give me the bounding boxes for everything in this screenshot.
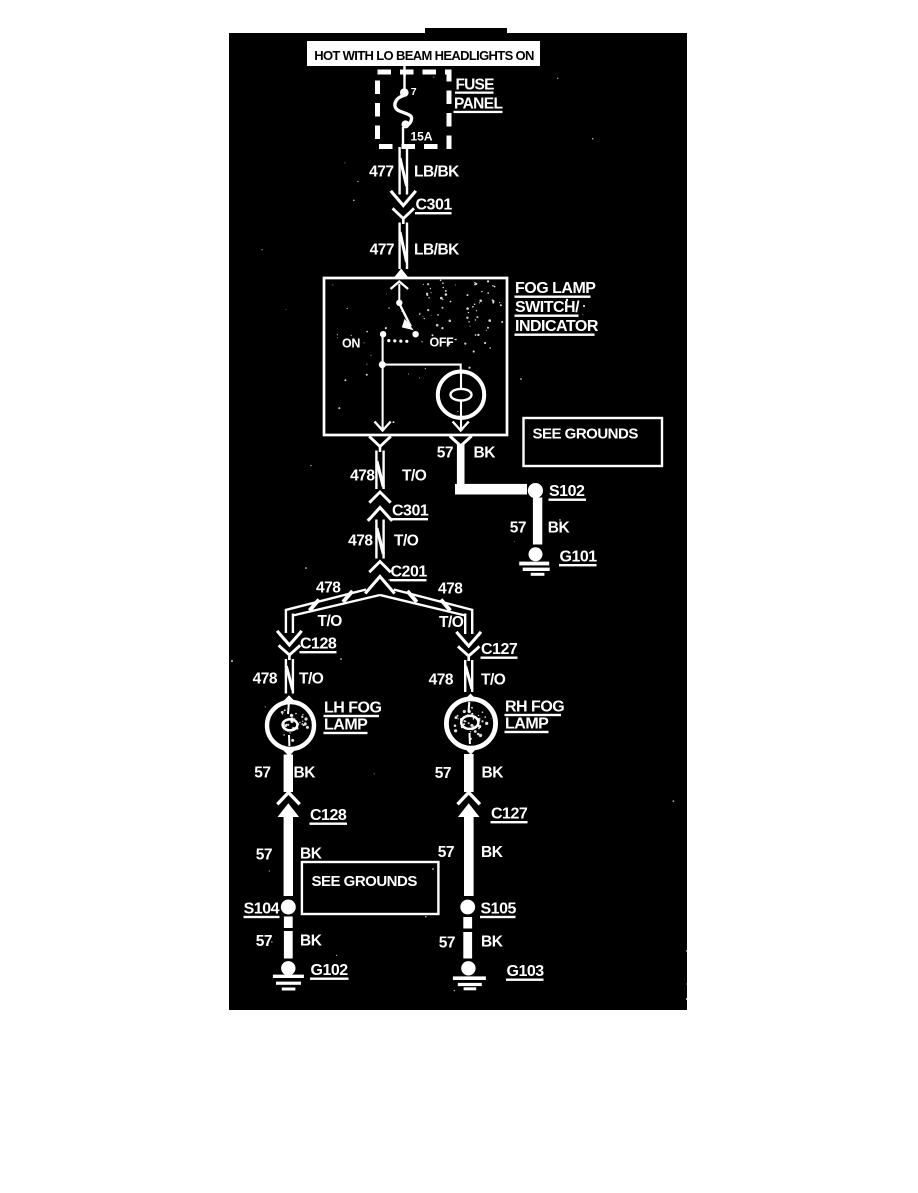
OFF contact [412,331,418,337]
svg-text:478: 478 [253,671,278,688]
wire 57 BK (S102 to G101) [510,498,571,545]
svg-text:FUSE: FUSE [456,77,495,94]
fuse element squiggle [395,96,412,126]
svg-text:ON: ON [342,337,360,351]
svg-text:SEE GROUNDS: SEE GROUNDS [312,873,418,890]
svg-text:C201: C201 [391,564,428,581]
svg-text:C128: C128 [300,636,337,653]
svg-text:BK: BK [548,520,571,537]
banner HOT WITH LO BEAM HEADLIGHTS ON [307,41,540,66]
svg-text:LH FOG: LH FOG [324,700,381,717]
svg-text:T/O: T/O [394,533,419,550]
svg-text:PANEL: PANEL [454,96,503,113]
connector C128 lower [277,793,347,825]
wire from ON contact down [382,337,384,430]
svg-text:FOG LAMP: FOG LAMP [515,280,596,297]
switch blade [400,306,414,331]
black diagram panel [229,33,687,1010]
fuse 15A [395,74,433,147]
svg-text:57: 57 [256,933,272,950]
wire junction to indicator [382,364,460,366]
svg-text:478: 478 [438,581,463,598]
svg-text:T/O: T/O [439,614,464,631]
ground G101 [519,547,597,576]
svg-text:478: 478 [350,468,375,485]
LH fog lamp [267,695,314,756]
wire 478 T/O (C301 to C201) [348,520,419,559]
svg-text:57: 57 [438,844,454,861]
svg-text:LAMP: LAMP [324,717,368,734]
wire 477 LB/BK (C301 to switch) [370,223,461,270]
wire 57 BK (RH lamp down) [435,754,504,792]
wire 57 BK (C128 to S104) [256,816,323,897]
fuse panel dashed box [378,72,450,147]
wire 477 LB/BK (fuse to C301) [369,147,460,195]
ON contact [380,331,386,337]
svg-text:T/O: T/O [299,671,324,688]
svg-text:RH FOG: RH FOG [505,699,564,716]
indicator lamp [438,372,484,430]
svg-text:S102: S102 [549,483,585,500]
connector C127 lower [458,793,528,824]
left branch vertical to C128 [286,609,293,633]
switch internal entry [391,282,409,301]
splice S102 [528,483,586,501]
svg-text:SEE GROUNDS: SEE GROUNDS [533,426,639,443]
fuse pin node (bottom) [402,120,410,128]
label RH FOG LAMP [505,699,565,734]
svg-text:477: 477 [369,164,393,181]
svg-text:S105: S105 [481,901,517,918]
RH fog lamp [446,694,495,755]
svg-text:T/O: T/O [402,468,427,485]
wire 478 T/O (C127 to RH lamp) [429,660,506,692]
ground G102 [273,961,349,990]
fog lamp switch / indicator box [324,278,507,435]
dotted travel line [387,339,408,343]
label LH FOG LAMP [324,700,382,735]
label FUSE PANEL [454,77,503,114]
svg-text:LB/BK: LB/BK [414,242,460,259]
svg-text:SWITCH/: SWITCH/ [515,299,580,316]
left diagonal wire of split [286,590,380,616]
svg-text:C301: C301 [416,197,453,214]
svg-text:HOT WITH LO BEAM HEADLIGHTS ON: HOT WITH LO BEAM HEADLIGHTS ON [314,48,534,63]
switch pivot contact [396,300,402,306]
connector C301 lower [368,492,429,521]
label FOG LAMP SWITCH/INDICATOR [515,280,599,336]
svg-text:BK: BK [474,445,497,462]
junction node [379,361,386,368]
svg-text:C128: C128 [310,807,347,824]
svg-text:57: 57 [439,935,455,952]
svg-text:LB/BK: LB/BK [414,164,460,181]
splice S105 [460,900,516,919]
svg-text:478: 478 [429,672,454,689]
svg-text:57: 57 [437,445,453,462]
right diagonal wire of split [380,590,472,616]
svg-text:57: 57 [435,765,451,782]
svg-text:15A: 15A [411,130,433,144]
fuse pin node (top) [400,88,409,97]
wire 57 BK (S105 to G103) [439,917,504,959]
connector C301 upper: arrow + socket [391,191,453,224]
svg-text:BK: BK [481,934,504,951]
wire 478 T/O (switch to C301) [350,451,427,490]
svg-text:BK: BK [481,844,504,861]
svg-text:BK: BK [482,765,505,782]
svg-text:57: 57 [256,847,272,864]
socket below box left output [369,436,391,452]
svg-text:C127: C127 [481,641,518,658]
svg-text:BK: BK [300,933,323,950]
wire 57 BK (switch right output) [437,445,527,495]
wire 57 BK (C127 to S105) [438,816,504,897]
connector C128 upper [277,631,337,660]
right branch vertical to C127 [465,609,472,634]
splice S104 [244,900,296,919]
wire 57 BK (S104 to G102) [256,917,323,959]
svg-text:S104: S104 [244,901,280,918]
svg-text:478: 478 [316,580,341,597]
svg-text:BK: BK [300,846,323,863]
svg-text:478: 478 [348,533,373,550]
svg-text:7: 7 [411,86,417,98]
svg-text:OFF: OFF [430,336,455,350]
svg-text:T/O: T/O [318,613,343,630]
svg-text:G103: G103 [507,963,545,980]
svg-text:C301: C301 [392,503,429,520]
arrow into switch box [394,269,408,278]
svg-text:T/O: T/O [481,672,506,689]
splice Y apex arrow [365,577,394,594]
arrowheads at box bottom [375,422,469,431]
svg-text:BK: BK [294,765,317,782]
SEE GROUNDS box lower [302,862,439,914]
wire 478 T/O (C128 to LH lamp) [253,659,324,694]
SEE GROUNDS box upper [524,418,663,466]
ground G103 [453,961,544,990]
wire 57 BK (LH lamp down) [254,755,316,793]
svg-text:C127: C127 [491,806,528,823]
wire from banner to fuse panel [403,66,405,76]
svg-text:477: 477 [370,242,394,259]
svg-text:INDICATOR: INDICATOR [515,318,599,335]
svg-text:G101: G101 [560,549,598,566]
svg-text:LAMP: LAMP [505,716,549,733]
svg-text:G102: G102 [311,962,349,979]
svg-text:57: 57 [254,765,270,782]
svg-text:57: 57 [510,520,526,537]
connector C127 upper [456,632,517,661]
connector C201 [369,562,427,582]
socket below box right output [450,436,472,446]
